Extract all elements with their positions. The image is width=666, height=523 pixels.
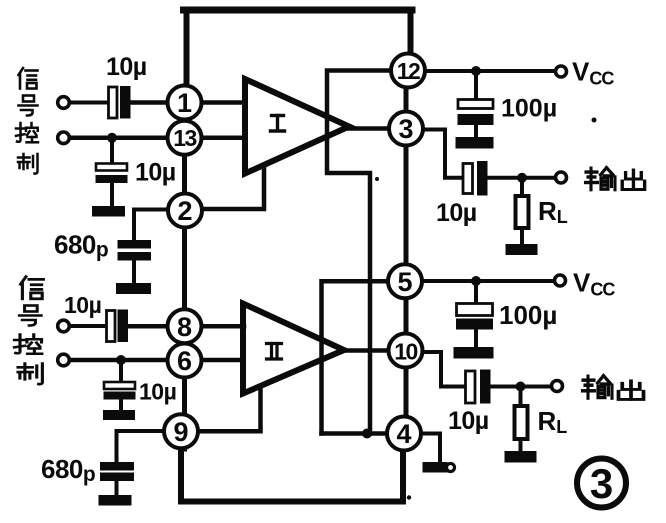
wire C5 stem from junction B bbox=[119, 360, 123, 383]
wire C5 to ground bbox=[119, 399, 123, 411]
speck bbox=[592, 118, 597, 123]
wire C9 to ground bbox=[474, 329, 478, 348]
ground for R1 bbox=[506, 245, 537, 255]
ground for R2 bbox=[505, 452, 536, 463]
wire R1 stem bbox=[520, 178, 524, 196]
svg-text:10: 10 bbox=[394, 339, 417, 365]
IC body left pin column bbox=[182, 86, 187, 449]
junction node F bbox=[517, 173, 527, 183]
speck bbox=[375, 177, 379, 181]
svg-text:10µ: 10µ bbox=[448, 407, 489, 435]
wire pin 9 to C6 680p bbox=[117, 431, 165, 463]
wire U1 output to pin 3 bbox=[349, 126, 406, 131]
capacitor C8 10u output 1 bbox=[463, 164, 473, 194]
IC body left top corner drop bbox=[184, 10, 190, 86]
input terminal 2 bbox=[58, 132, 70, 144]
junction node G bbox=[516, 382, 526, 392]
svg-text:12: 12 bbox=[397, 58, 420, 84]
wire pin 10 to C10 bbox=[423, 352, 465, 387]
capacitor C7 100u bbox=[458, 100, 493, 109]
svg-text:9: 9 bbox=[173, 417, 188, 447]
wire pin 12 to Vcc terminal bbox=[408, 69, 556, 73]
capacitor C1 10u series input 1 bbox=[109, 87, 118, 118]
capacitor C10 10u output 2 bbox=[466, 371, 476, 403]
pin 5 bbox=[388, 264, 422, 298]
capacitor C4 10u series input 2 bbox=[107, 311, 116, 342]
wire pin 3 to C8 bbox=[423, 130, 463, 178]
Vcc terminal 2 bbox=[555, 275, 566, 286]
svg-text:RL: RL bbox=[538, 406, 568, 437]
svg-text:6: 6 bbox=[177, 346, 192, 376]
wire C2 stem from junction A bbox=[110, 138, 114, 164]
svg-text:3: 3 bbox=[590, 460, 613, 507]
svg-text:1: 1 bbox=[177, 88, 192, 118]
label output char chu (top) bbox=[622, 170, 644, 190]
wire C9 stem from junction E bbox=[474, 281, 478, 304]
output terminal 1 bbox=[556, 172, 567, 183]
ground for C3 bbox=[117, 284, 151, 294]
Vcc terminal 1 bbox=[556, 66, 567, 77]
input terminal 1 bbox=[58, 97, 70, 109]
IC body bottom rail bbox=[181, 448, 403, 502]
svg-text:100µ: 100µ bbox=[501, 95, 557, 123]
label signal-control char xin (bottom) bbox=[21, 277, 44, 299]
op-amp U1 bbox=[245, 79, 349, 174]
wire C4 to pin 8 and into op-amp U2 bbox=[128, 324, 245, 329]
op-amp U2 label II bbox=[267, 344, 282, 360]
wire input2 through junction to pin 13 and op-amp U1 bbox=[69, 136, 245, 141]
pin 6 bbox=[168, 344, 202, 378]
resistor R1 RL bbox=[516, 196, 529, 228]
capacitor C9 100u bbox=[457, 304, 493, 316]
capacitor C5 10u shunt input 2 bbox=[104, 382, 135, 389]
pin 9 bbox=[164, 414, 198, 448]
IC body right top corner drop bbox=[408, 10, 414, 64]
op-amp U2 bbox=[243, 304, 344, 394]
ground for pin 4 bbox=[423, 463, 447, 473]
label signal-control char hao (bottom) bbox=[19, 306, 41, 326]
junction node A bbox=[107, 133, 117, 143]
svg-text:VCC: VCC bbox=[572, 57, 614, 89]
wire R1 to ground bbox=[520, 228, 524, 245]
resistor R2 RL bbox=[515, 406, 528, 439]
svg-text:2: 2 bbox=[177, 196, 192, 226]
pin 10 bbox=[389, 334, 423, 368]
pin 8 bbox=[168, 309, 202, 343]
junction node C bbox=[362, 429, 372, 439]
svg-text:680p: 680p bbox=[41, 454, 95, 486]
junction node B bbox=[116, 355, 126, 365]
op-amp U1 label I bbox=[271, 116, 285, 132]
label signal-control char zhi (top) bbox=[18, 154, 38, 174]
label output char shu (top) bbox=[586, 168, 616, 190]
svg-text:8: 8 bbox=[177, 312, 192, 342]
ground for C6 bbox=[99, 496, 131, 506]
output terminal 2 bbox=[552, 381, 563, 392]
svg-text:10µ: 10µ bbox=[135, 159, 176, 187]
wire pin 2 to C3 680p bbox=[134, 210, 168, 242]
wire C8 to output terminal 1 bbox=[487, 176, 556, 180]
pin 2 bbox=[168, 194, 202, 228]
IC body right pin column bbox=[404, 70, 409, 434]
input terminal 4 bbox=[58, 354, 70, 366]
junction node D bbox=[471, 66, 481, 76]
svg-text:13: 13 bbox=[173, 125, 196, 151]
svg-text:4: 4 bbox=[396, 419, 411, 449]
wire U2 output to pin 10 bbox=[344, 348, 406, 353]
wire pin 4 to ground bbox=[421, 434, 440, 465]
label output char chu (bottom) bbox=[619, 381, 644, 400]
IC body top rail bbox=[184, 7, 413, 14]
capacitor C3 680p bbox=[118, 241, 151, 249]
ground for C5 bbox=[104, 411, 135, 420]
svg-text:10µ: 10µ bbox=[139, 379, 176, 405]
figure number 3 circled bbox=[577, 459, 626, 508]
svg-text:RL: RL bbox=[538, 196, 568, 227]
wire internal net pin 12 down to node C bbox=[327, 71, 391, 434]
wire input4 through junction to pin 6 and op-amp U2 bbox=[69, 358, 244, 363]
svg-text:10µ: 10µ bbox=[106, 53, 147, 81]
wire pin 9 feedback to U2 bbox=[198, 387, 261, 431]
wire C2 to ground bbox=[110, 183, 114, 208]
wire R2 to ground bbox=[519, 439, 523, 452]
ground for C2 bbox=[93, 207, 125, 217]
label signal-control char xin (top) bbox=[19, 68, 38, 89]
label signal-control char hao (top) bbox=[19, 96, 38, 116]
pin 3 bbox=[389, 112, 423, 146]
wire C7 to ground bbox=[474, 125, 478, 139]
pin 13 bbox=[168, 121, 202, 155]
wire C10 to output terminal 2 bbox=[490, 385, 552, 389]
capacitor C6 680p bbox=[101, 463, 134, 471]
input terminal 3 bbox=[58, 320, 70, 332]
wire C7 stem from junction D bbox=[474, 71, 478, 100]
svg-text:VCC: VCC bbox=[573, 268, 615, 300]
wire C6 to ground bbox=[115, 480, 119, 496]
wire internal net pin 5 down to node C bbox=[322, 281, 389, 433]
label signal-control char kong (top) bbox=[16, 123, 38, 142]
pin 4 bbox=[387, 417, 421, 451]
wire input1 to C1 bbox=[69, 101, 108, 105]
pin 1 bbox=[168, 86, 202, 120]
capacitor C2 10u shunt input 1 bbox=[96, 164, 127, 171]
wire R2 stem bbox=[519, 387, 523, 407]
label output char shu (bottom) bbox=[583, 376, 613, 398]
wire C1 to pin 1 and into op-amp U1 bbox=[130, 100, 245, 105]
pin 12 bbox=[391, 54, 425, 88]
wire pin 5 to Vcc terminal 2 bbox=[405, 279, 555, 283]
svg-text:5: 5 bbox=[397, 267, 412, 297]
svg-text:10µ: 10µ bbox=[436, 199, 477, 227]
svg-text:10µ: 10µ bbox=[64, 292, 101, 318]
label signal-control char zhi (bottom) bbox=[18, 364, 42, 385]
svg-text:680p: 680p bbox=[54, 230, 108, 262]
wire C3 to ground bbox=[132, 261, 136, 285]
wire node C to pin 4 bbox=[322, 431, 389, 436]
wire pin 2 feedback to U1 bbox=[202, 165, 264, 209]
ground for C9 bbox=[454, 348, 493, 359]
junction node E bbox=[471, 276, 481, 286]
ground for C7 bbox=[456, 138, 493, 149]
svg-text:100µ: 100µ bbox=[499, 300, 557, 330]
wire input3 to C4 bbox=[69, 324, 107, 328]
speck bbox=[407, 495, 411, 499]
label signal-control char kong (bottom) bbox=[14, 335, 42, 354]
svg-text:3: 3 bbox=[398, 114, 413, 144]
